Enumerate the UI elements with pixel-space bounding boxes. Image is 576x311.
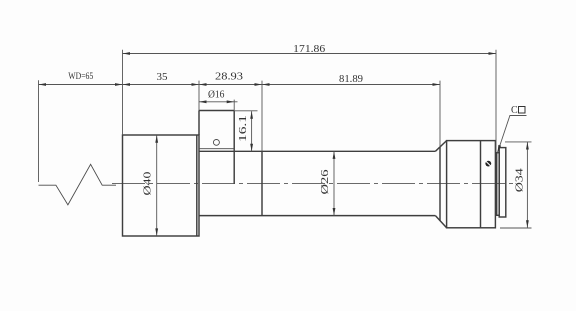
- arrow 122.5 from right: [123, 83, 131, 86]
- svg-text:Ø26: Ø26: [320, 170, 331, 195]
- svg-text:81.89: 81.89: [339, 74, 363, 85]
- svg-text:35: 35: [157, 72, 168, 83]
- arrow phi34 down: [526, 220, 529, 228]
- dim line 16.1: [251, 111, 253, 151]
- arrow phi40 down: [155, 228, 158, 236]
- cone top diagonal: [435, 141, 446, 152]
- arrow phi34 up: [526, 142, 529, 150]
- dim chain line: [39, 84, 441, 86]
- ext line at 496: [495, 50, 497, 152]
- illumination port left edge: [198, 111, 200, 136]
- object plane line: [38, 80, 40, 182]
- rear housing body: [447, 141, 496, 228]
- illumination port phi16 top: [199, 110, 234, 112]
- ext line at 199: [198, 81, 200, 111]
- C-mount flange strip: [499, 148, 506, 217]
- front block inner face line: [196, 135, 198, 236]
- tube phi26 top edge: [199, 150, 435, 152]
- C-mount square glyph: [519, 107, 526, 114]
- tube joint line: [261, 151, 263, 215]
- arrow 262 from right: [262, 83, 270, 86]
- ext line at 262: [261, 81, 263, 152]
- leader C-mount line: [498, 116, 510, 153]
- arrow phi16 right: [227, 100, 235, 103]
- arrow 199 from right: [199, 83, 207, 86]
- ext line at 440: [439, 81, 441, 147]
- front block phi40 body: [123, 135, 200, 236]
- dim line phi34: [526, 142, 528, 228]
- rear housing inner line: [480, 141, 482, 228]
- svg-text:Ø16: Ø16: [208, 89, 225, 100]
- svg-text:C: C: [511, 105, 518, 116]
- set screw: [485, 161, 491, 167]
- dim line phi40: [156, 135, 158, 236]
- svg-text:16.1: 16.1: [238, 115, 249, 142]
- ext line phi16 right: [233, 100, 235, 111]
- arrow 199 from left: [192, 83, 200, 86]
- tube phi26 bottom edge: [199, 215, 435, 217]
- dim line 171.86: [123, 53, 497, 55]
- dim line phi26: [333, 151, 335, 215]
- port seat line: [199, 148, 234, 150]
- svg-text:Ø34: Ø34: [514, 167, 525, 192]
- arrow phi16 left: [199, 100, 207, 103]
- arrow 171.86 left: [123, 52, 131, 55]
- ext line phi34 top: [505, 141, 532, 143]
- arrow phi26 down: [333, 208, 336, 216]
- arrow 16.1 up: [250, 111, 253, 119]
- svg-text:Ø40: Ø40: [143, 172, 154, 196]
- cone bottom diagonal: [435, 216, 446, 228]
- arrow 122.5 from left: [115, 83, 123, 86]
- ext line 16.1 top: [234, 110, 257, 112]
- ext line at 122.5: [122, 50, 124, 135]
- arrow phi26 up: [333, 151, 336, 159]
- arrow 171.86 right: [489, 52, 497, 55]
- arrow WD left: [39, 83, 47, 86]
- break zigzag (WD line): [39, 164, 117, 205]
- cone joint vertical: [439, 147, 441, 221]
- arrow 262 from left: [255, 83, 263, 86]
- centerline: [112, 183, 517, 185]
- dim line phi16: [199, 101, 238, 103]
- svg-text:171.86: 171.86: [293, 44, 325, 55]
- svg-text:WD=65: WD=65: [68, 72, 93, 82]
- C-mount thread strip: [497, 153, 500, 216]
- leader C-mount shelf: [510, 115, 527, 117]
- illumination port right edge: [233, 111, 235, 184]
- arrow 440: [433, 83, 441, 86]
- leader arrowhead: [498, 145, 502, 153]
- svg-text:28.93: 28.93: [215, 72, 243, 83]
- arrow phi40 up: [155, 135, 158, 143]
- port screw O mark: [213, 140, 219, 146]
- arrow 16.1 down: [250, 144, 253, 152]
- ext line phi34 bottom: [500, 227, 532, 229]
